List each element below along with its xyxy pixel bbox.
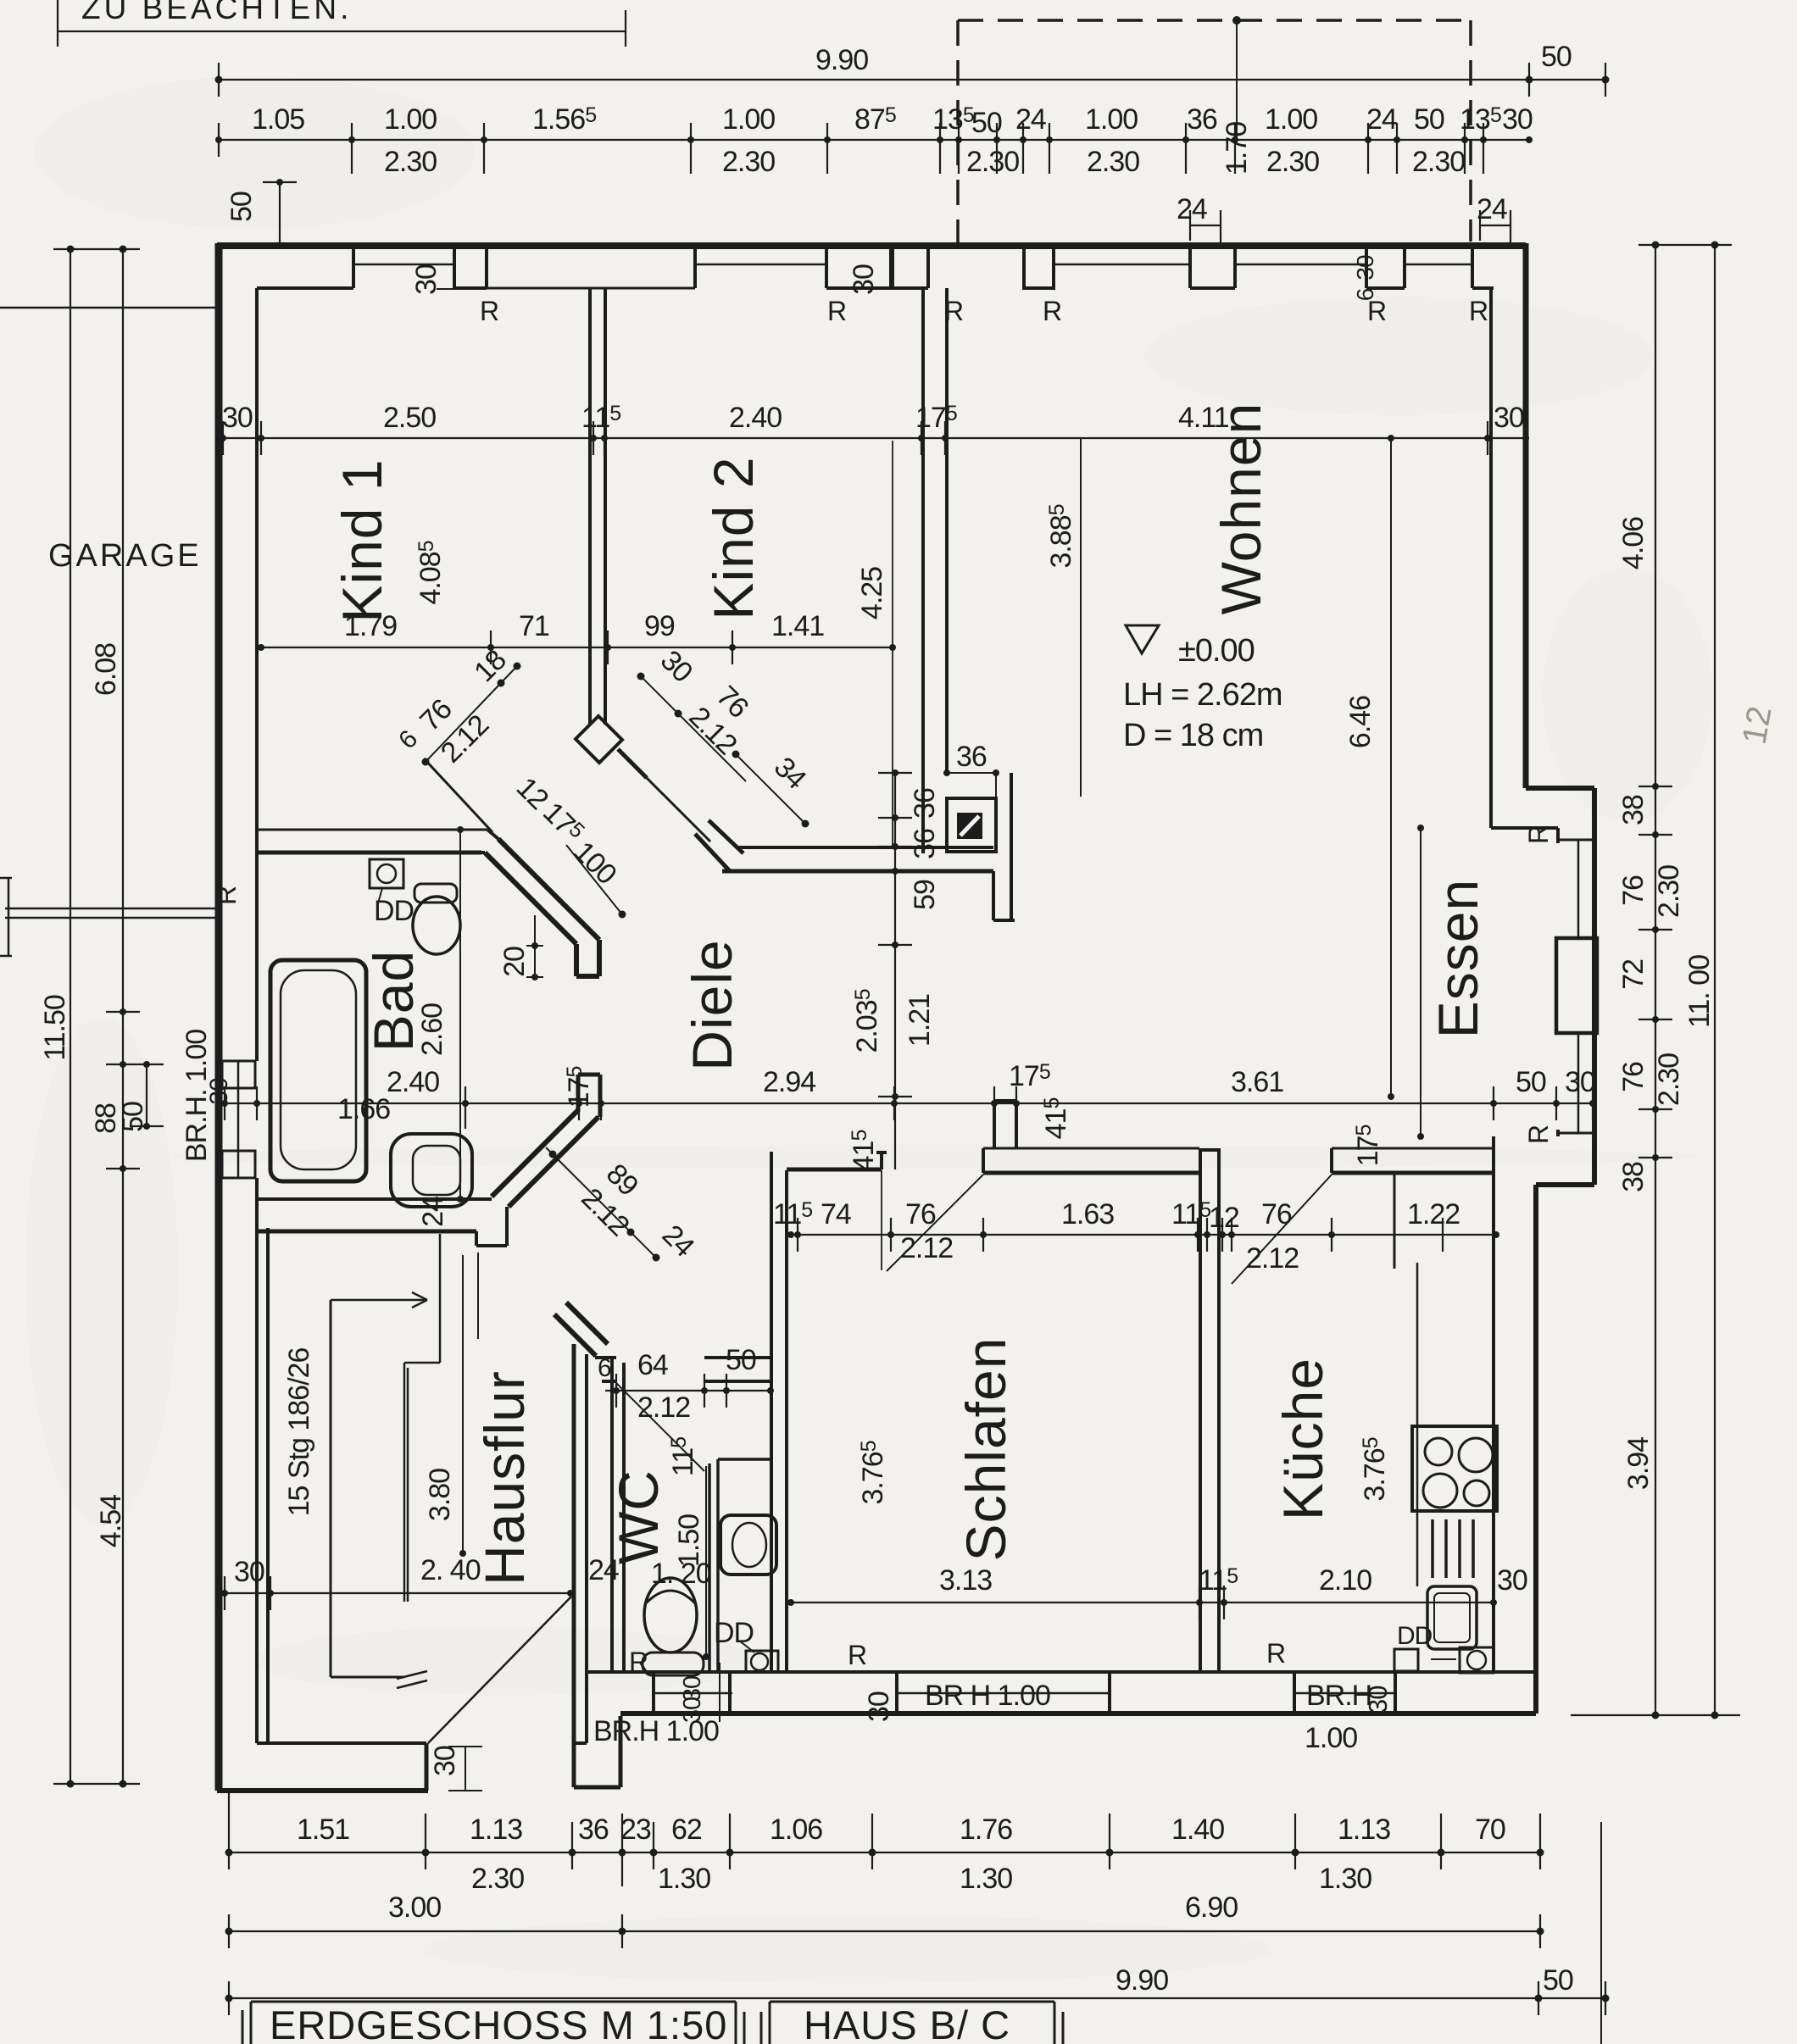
bad top wall <box>257 829 487 831</box>
svg-text:36: 36 <box>578 1813 609 1846</box>
diele west stub <box>578 1075 600 1117</box>
dashed outline upper storey <box>958 20 1471 244</box>
row R8a hausflur <box>219 1592 570 1594</box>
svg-text:59: 59 <box>909 880 941 910</box>
svg-text:24: 24 <box>1477 193 1507 225</box>
svg-text:1.63: 1.63 <box>1061 1198 1114 1230</box>
kueche sink <box>1427 1586 1477 1649</box>
bathtub <box>270 960 366 1181</box>
svg-text:R: R <box>629 1647 648 1677</box>
row R1 9.90 <box>219 63 1605 97</box>
top wall window sills <box>353 264 1472 266</box>
top wall pillar <box>1024 246 1054 288</box>
row R6 schlafen/kueche doors <box>791 1234 1496 1236</box>
various thin dim verticals <box>460 438 1421 1657</box>
svg-text:6: 6 <box>598 1354 611 1382</box>
wc toilet <box>644 1578 697 1652</box>
svg-text:6.08: 6.08 <box>90 643 122 696</box>
svg-text:30: 30 <box>679 1697 706 1723</box>
svg-text:6: 6 <box>1352 288 1378 301</box>
svg-text:30: 30 <box>205 1078 233 1105</box>
svg-text:1.00: 1.00 <box>1305 1722 1357 1754</box>
svg-text:Diele: Diele <box>681 939 743 1070</box>
svg-text:74: 74 <box>821 1198 851 1230</box>
hausflur entry long diagonal <box>428 1597 571 1743</box>
svg-text:2.30: 2.30 <box>471 1863 524 1895</box>
bottom row R10 <box>229 1930 1540 1932</box>
top wall opening verticals <box>353 246 1472 288</box>
svg-text:50: 50 <box>971 107 1002 139</box>
left wall <box>215 243 223 1791</box>
svg-text:76: 76 <box>905 1198 936 1230</box>
hausflur right wall <box>572 1344 576 1743</box>
porch 30 step dim <box>448 1747 482 1791</box>
svg-text:1. 20: 1. 20 <box>651 1558 711 1590</box>
svg-text:Bad: Bad <box>362 950 425 1052</box>
svg-text:2.12: 2.12 <box>637 1391 690 1424</box>
kind2 door: thick piece at cap <box>618 749 647 778</box>
kind2 door diagonal dim <box>641 676 805 824</box>
wc / schlafen wall <box>771 1152 787 1672</box>
svg-text:30: 30 <box>234 1556 264 1588</box>
bottom wall <box>587 1670 1536 1674</box>
svg-text:3.00: 3.00 <box>388 1891 441 1924</box>
svg-text:6.90: 6.90 <box>1185 1891 1238 1924</box>
L-wall wohnen/diele <box>993 773 1015 920</box>
garage outline <box>0 308 217 918</box>
svg-text:R: R <box>1523 825 1554 844</box>
svg-text:9.90: 9.90 <box>815 44 868 76</box>
wc top wall with door gap <box>595 1358 771 1381</box>
svg-text:BR H 1.00: BR H 1.00 <box>925 1680 1050 1712</box>
kind2/wohnen partition <box>923 288 947 853</box>
svg-text:1.00: 1.00 <box>384 103 437 136</box>
west zig: diag A band <box>485 839 599 944</box>
svg-text:DD: DD <box>1397 1622 1433 1650</box>
wc nook toilet <box>720 1515 776 1575</box>
svg-text:64: 64 <box>637 1349 668 1381</box>
svg-text:15 Stg 186/26: 15 Stg 186/26 <box>283 1348 315 1517</box>
svg-text:1.66: 1.66 <box>337 1093 390 1125</box>
svg-text:DD: DD <box>374 895 414 927</box>
level mark triangle <box>1126 625 1159 653</box>
svg-text:2.40: 2.40 <box>729 402 782 434</box>
svg-text:50: 50 <box>1543 1964 1573 1997</box>
bottom row R11 <box>229 1997 1605 1999</box>
svg-text:D = 18 cm: D = 18 cm <box>1123 718 1263 753</box>
svg-text:11. 00: 11. 00 <box>1683 955 1716 1028</box>
svg-text:30: 30 <box>429 1746 461 1776</box>
svg-text:2.30: 2.30 <box>1087 146 1139 178</box>
svg-text:1.30: 1.30 <box>960 1863 1012 1895</box>
svg-text:2.30: 2.30 <box>384 146 437 178</box>
svg-text:R: R <box>1523 1125 1554 1144</box>
svg-text:ERDGESCHOSS M 1:50: ERDGESCHOSS M 1:50 <box>270 2002 727 2044</box>
svg-text:30: 30 <box>848 264 880 295</box>
svg-text:2.30: 2.30 <box>722 146 775 178</box>
svg-text:R: R <box>827 296 846 326</box>
svg-text:76: 76 <box>1261 1198 1292 1230</box>
row R2 window chain <box>219 139 1529 141</box>
west zig: elbow foot <box>576 940 599 976</box>
svg-text:Kind 1: Kind 1 <box>331 458 393 622</box>
kind1 door diagonal dim <box>426 666 517 762</box>
svg-text:1.00: 1.00 <box>722 103 775 136</box>
svg-text:DD: DD <box>714 1617 754 1649</box>
svg-text:4.25: 4.25 <box>856 567 888 619</box>
svg-text:30: 30 <box>1363 1686 1393 1714</box>
svg-text:1.70: 1.70 <box>1221 122 1253 175</box>
svg-text:2.30: 2.30 <box>1412 146 1465 178</box>
svg-text:1.13: 1.13 <box>470 1813 522 1846</box>
svg-text:2. 40: 2. 40 <box>420 1554 481 1586</box>
svg-text:3.13: 3.13 <box>939 1564 992 1597</box>
row R3 <box>219 437 1529 439</box>
svg-text:24: 24 <box>1015 103 1046 136</box>
svg-text:50: 50 <box>117 1102 149 1132</box>
svg-text:2.94: 2.94 <box>763 1066 815 1098</box>
title blocks <box>242 2002 1063 2044</box>
bad toilet upper <box>414 884 457 903</box>
wc boiler DD <box>746 1651 778 1672</box>
svg-text:50: 50 <box>225 192 258 222</box>
svg-text:24: 24 <box>588 1554 619 1586</box>
svg-text:2.30: 2.30 <box>1653 865 1685 918</box>
svg-text:72: 72 <box>1617 959 1650 990</box>
bad bottom wall with step <box>257 1197 492 1201</box>
svg-text:36: 36 <box>909 829 941 859</box>
porch / bottom-left bay <box>217 1788 428 1793</box>
kind1 door leaf diagonal <box>424 758 492 832</box>
kueche right wall <box>1492 1136 1495 1672</box>
bad toilet lower (bidet) <box>391 1134 472 1207</box>
svg-text:3.61: 3.61 <box>1231 1066 1283 1098</box>
svg-text:23: 23 <box>620 1813 651 1846</box>
svg-text:38: 38 <box>1617 795 1650 825</box>
svg-text:36: 36 <box>909 788 941 819</box>
svg-text:30: 30 <box>410 264 442 295</box>
svg-text:76: 76 <box>1617 875 1650 906</box>
svg-text:1.76: 1.76 <box>960 1813 1012 1846</box>
kind2 corner diagonal band <box>695 820 743 871</box>
top wall inner segments <box>257 286 1494 290</box>
svg-text:36: 36 <box>956 741 987 773</box>
kueche small appliances <box>1460 1647 1494 1673</box>
kind1/kind2 partition <box>590 288 605 725</box>
50 left small dim <box>263 182 297 246</box>
svg-text:Schlafen: Schlafen <box>954 1337 1017 1562</box>
svg-text:30: 30 <box>222 402 253 434</box>
4.25 extension line <box>892 441 893 846</box>
svg-text:99: 99 <box>644 610 675 642</box>
svg-text:1.00: 1.00 <box>1085 103 1138 136</box>
bottom row R9 <box>229 1852 1540 1853</box>
svg-text:6.46: 6.46 <box>1344 696 1377 748</box>
svg-text:12: 12 <box>1736 703 1779 747</box>
svg-text:9.90: 9.90 <box>1115 1964 1168 1997</box>
svg-text:Kind 2: Kind 2 <box>702 456 765 619</box>
svg-text:50: 50 <box>1541 41 1572 73</box>
svg-text:30: 30 <box>863 1691 895 1722</box>
svg-text:±0.00: ±0.00 <box>1178 633 1255 669</box>
right columns <box>1655 245 1715 1715</box>
svg-text:ZU BEACHTEN.: ZU BEACHTEN. <box>81 0 352 25</box>
hausflur 89 door diagonal dim <box>546 1147 656 1258</box>
svg-text:50: 50 <box>1516 1066 1546 1098</box>
svg-text:76: 76 <box>1617 1062 1650 1092</box>
svg-text:3.80: 3.80 <box>424 1469 456 1521</box>
hausflur/wc corner diagonal <box>554 1302 608 1356</box>
svg-text:38: 38 <box>1617 1162 1650 1192</box>
svg-text:Essen: Essen <box>1427 879 1489 1038</box>
west zig: jog at bad corner <box>481 830 498 853</box>
svg-text:1.40: 1.40 <box>1171 1813 1224 1846</box>
svg-text:1.30: 1.30 <box>658 1863 710 1895</box>
svg-text:62: 62 <box>671 1813 702 1846</box>
svg-text:11.50: 11.50 <box>39 995 71 1061</box>
svg-text:30: 30 <box>1494 402 1524 434</box>
svg-text:1.21: 1.21 <box>904 994 936 1047</box>
svg-text:1.06: 1.06 <box>770 1813 822 1846</box>
kueche grill <box>1433 1519 1473 1578</box>
chimney <box>947 798 996 852</box>
20 dim near diag <box>526 915 543 977</box>
svg-text:Wohnen: Wohnen <box>1210 403 1272 615</box>
right wall upper <box>1523 243 1529 788</box>
svg-text:24: 24 <box>1366 103 1397 136</box>
schlafen top wall stub <box>994 1101 1016 1148</box>
kueche stove <box>1412 1426 1497 1511</box>
svg-text:4.54: 4.54 <box>95 1495 127 1547</box>
svg-text:2.10: 2.10 <box>1319 1564 1371 1597</box>
svg-text:WC: WC <box>607 1469 670 1564</box>
wc radiator <box>643 1652 704 1675</box>
schlafen NW wall line <box>787 1168 882 1172</box>
svg-text:R: R <box>211 886 242 905</box>
svg-text:20: 20 <box>498 947 531 977</box>
top note box <box>58 0 626 47</box>
svg-text:1.13: 1.13 <box>1338 1813 1390 1846</box>
svg-text:71: 71 <box>519 610 549 642</box>
svg-text:1.05: 1.05 <box>252 103 304 136</box>
wc left wall <box>612 1359 624 1672</box>
svg-text:1.30: 1.30 <box>1319 1863 1371 1895</box>
svg-text:2.30: 2.30 <box>1266 146 1319 178</box>
svg-text:HAUS B/ C: HAUS B/ C <box>804 2002 1010 2044</box>
svg-text:1.00: 1.00 <box>1265 103 1317 136</box>
left columns <box>70 249 123 1784</box>
svg-text:BR.H: BR.H <box>1306 1680 1371 1712</box>
30 pier dims on top wall <box>437 248 907 289</box>
svg-text:R: R <box>944 296 963 326</box>
svg-text:12: 12 <box>1209 1202 1239 1234</box>
essen bay <box>1526 788 1594 1185</box>
door swing diagonals <box>616 1175 1332 1471</box>
svg-text:R: R <box>1469 296 1488 326</box>
svg-text:Küche: Küche <box>1271 1358 1334 1520</box>
svg-text:R: R <box>1043 296 1061 326</box>
svg-text:1.51: 1.51 <box>297 1813 349 1846</box>
svg-text:70: 70 <box>1475 1813 1505 1846</box>
svg-text:2.60: 2.60 <box>416 1003 448 1056</box>
stairs <box>330 1300 332 1677</box>
svg-text:24: 24 <box>1177 193 1207 225</box>
svg-text:3.94: 3.94 <box>1622 1437 1655 1490</box>
svg-text:GARAGE: GARAGE <box>48 538 202 574</box>
wc nook <box>709 1459 771 1672</box>
svg-text:LH = 2.62m: LH = 2.62m <box>1123 677 1282 713</box>
svg-text:2.30: 2.30 <box>1653 1053 1685 1106</box>
partition end cap <box>576 716 622 763</box>
entrance pier <box>574 1716 620 1787</box>
svg-text:30: 30 <box>1565 1066 1595 1098</box>
svg-text:30: 30 <box>1352 255 1378 280</box>
svg-text:1.41: 1.41 <box>771 610 824 642</box>
svg-text:50: 50 <box>1414 103 1444 136</box>
svg-text:36: 36 <box>1187 103 1217 136</box>
24 dims near top wall <box>1190 210 1221 247</box>
svg-text:24: 24 <box>417 1197 449 1227</box>
schlafen/kueche partition <box>1200 1148 1219 1672</box>
top wall outer <box>217 242 1526 249</box>
row R4 <box>261 647 893 648</box>
kind2 door leaf diagonal <box>647 778 710 841</box>
svg-text:R: R <box>848 1640 866 1670</box>
svg-text:Hausflur: Hausflur <box>473 1370 536 1586</box>
diele west diagonal B band (to bad corner) <box>492 1110 598 1207</box>
svg-text:2.12: 2.12 <box>900 1232 953 1264</box>
row R7 wc door <box>605 1390 771 1391</box>
schlafen top wall <box>983 1147 1199 1150</box>
svg-text:R: R <box>1266 1638 1285 1669</box>
left wall window <box>237 1061 240 1178</box>
wohnen left chain x1056 <box>894 773 896 1169</box>
svg-text:2.30: 2.30 <box>966 146 1019 178</box>
wc window 30/30 dim ticks <box>707 1663 732 1722</box>
svg-text:R: R <box>480 296 498 326</box>
diele north wall (kind2 bottom) <box>737 846 993 849</box>
svg-text:2.12: 2.12 <box>1246 1242 1299 1275</box>
svg-text:50: 50 <box>726 1344 756 1376</box>
chimney 36 dim <box>947 773 996 803</box>
row R8b schlafen width <box>791 1602 1494 1603</box>
svg-text:4.06: 4.06 <box>1617 517 1650 569</box>
diele 100 door diagonal dim <box>566 845 622 914</box>
svg-text:2.40: 2.40 <box>387 1066 439 1098</box>
kueche top wall <box>1332 1147 1494 1150</box>
svg-text:30: 30 <box>1502 103 1533 136</box>
svg-text:1.22: 1.22 <box>1407 1198 1460 1230</box>
svg-text:30: 30 <box>1497 1564 1527 1597</box>
svg-text:2.50: 2.50 <box>383 402 436 434</box>
bad sink + boiler <box>370 859 403 888</box>
kueche counter lines <box>1416 1263 1419 1586</box>
row R5 main middle chain <box>225 1103 1593 1104</box>
